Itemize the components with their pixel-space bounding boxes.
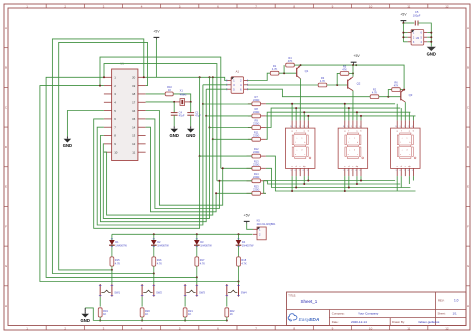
resistor R14 220 [247,172,266,183]
svg-text:SW1: SW1 [114,290,120,294]
svg-text:SW3: SW3 [199,290,205,294]
wire C1 down [190,115,192,126]
wire U3 right pins [427,32,432,43]
wire C4 up [173,102,175,113]
svg-text:4: 4 [412,126,413,128]
resistor R15 4.7K [110,257,120,270]
power +5V (U1) [153,29,160,77]
wire SW4 to R22 [226,297,228,307]
svg-text:Sheet:: Sheet: [438,312,446,316]
svg-text:5: 5 [396,170,397,172]
wire R16 to switch [153,274,155,285]
svg-text:GND: GND [63,143,72,148]
svg-text:C5: C5 [415,10,419,14]
svg-text:H: H [467,304,469,308]
svg-text:+5V: +5V [353,54,360,58]
svg-text:E: E [467,185,469,189]
capacitor C5 [413,10,421,25]
svg-text:220Ω: 220Ω [253,110,259,114]
resistor R22 1K [225,308,235,321]
wire ground rail [93,320,227,322]
junction Q3 base [387,96,389,98]
wire pin7 staircase [97,104,203,225]
svg-text:E: E [5,185,7,189]
wire R9 to top bus [266,108,400,127]
svg-text:D4: D4 [242,240,246,244]
wire R12 to bottom bus [266,156,416,191]
svg-text:G: G [467,264,470,268]
svg-text:e: e [400,154,401,156]
resistor R18 4.7K [237,257,247,282]
svg-text:12: 12 [132,142,136,146]
svg-text:d: d [354,150,355,152]
ground GND (pin5) [63,136,72,148]
wire pin16 staircase [146,111,224,206]
junction Q1 rail [300,64,302,66]
wire R2 to Q3 base [379,96,401,98]
svg-text:B: B [5,66,7,70]
wire U3 left pins [402,23,407,42]
wire rail to GND [85,308,93,321]
wire pin20 loop to SW2 [52,39,153,274]
svg-text:18: 18 [132,92,136,96]
svg-text:Drawn By:: Drawn By: [392,320,405,324]
svg-text:4.7K: 4.7K [115,261,121,265]
wire pin17 crystal line [146,101,175,103]
wire A1 pin4 to R3 [248,84,319,86]
wire A1 pin3 to column [203,84,227,86]
svg-text:A1: A1 [236,70,240,74]
wire pin2 loop over U1 [100,57,221,168]
svg-text:GND: GND [81,318,90,323]
svg-text:Sheet_1: Sheet_1 [301,299,318,304]
resistor R4 [286,56,295,67]
wire R11 to top bus [266,112,411,139]
svg-text:4: 4 [359,126,360,128]
resistor R1 [270,64,279,75]
svg-text:D: D [467,145,470,149]
diode D1 1N4007W [109,234,127,257]
junction diode bus D4 [238,233,240,235]
svg-text:11: 11 [407,326,410,330]
wire C5 right [418,23,431,46]
wire A1 pin5 to column [206,88,227,90]
junction R21 rail [184,320,186,322]
svg-text:16: 16 [132,109,136,113]
svg-text:B: B [467,66,469,70]
junction R18 bottom [238,281,240,283]
svg-text:2: 2 [355,126,356,128]
svg-text:1: 1 [351,126,352,128]
svg-text:G: G [5,264,8,268]
svg-text:47K: 47K [342,67,347,71]
diode D3 1N4007W [194,234,212,257]
svg-text:1N4007W: 1N4007W [200,243,212,247]
svg-text:+5V: +5V [400,13,407,17]
wire pin9 staircase [103,128,209,219]
wires DS3 pins to buses [397,104,413,191]
svg-text:6: 6 [400,170,401,172]
diode D2 1N4007W [151,234,169,257]
svg-text:C: C [467,105,470,109]
junction rail Q2 [352,64,354,66]
svg-text:100μF: 100μF [413,14,421,18]
resistor R6 [392,81,401,92]
svg-text:47pF: 47pF [179,114,185,118]
wire R13 row [221,167,252,169]
resistor R13 220 [247,159,266,170]
junction diode bus D3 [196,233,198,235]
sheet value [453,312,458,316]
wire pin19 loop to SW1 [59,42,148,270]
svg-text:1: 1 [299,126,300,128]
EasyEDA logo [288,314,320,323]
wire Q3 collector to DS3 [404,102,406,120]
wire R4 drop [283,65,285,73]
wire R18 to switch [238,282,240,285]
7-segment display DS1 [285,120,315,176]
junction pin2/loop [99,85,101,87]
svg-text:17: 17 [132,100,136,104]
svg-text:1/1: 1/1 [453,312,458,316]
svg-text:5: 5 [343,170,344,172]
wire R15 to switch [111,270,113,284]
svg-text:1K: 1K [188,312,191,316]
diode D4 1N4007W [236,234,254,257]
svg-text:GND: GND [170,133,179,138]
svg-text:1N4007W: 1N4007W [242,243,254,247]
wire pin20 to +5V and A1 [146,77,228,80]
wire C4 down [173,115,175,126]
svg-text:GND: GND [427,51,436,56]
wire pin10 staircase [104,139,213,215]
svg-text:Date:: Date: [332,320,339,324]
svg-text:11: 11 [132,150,135,154]
svg-text:X1: X1 [180,89,184,93]
drawnby value [419,320,440,324]
svg-text:A: A [467,26,469,30]
wire R23 row [216,192,252,194]
svg-text:b: b [304,142,305,144]
svg-text:19: 19 [132,84,136,88]
resistor R17 4.7K [195,257,205,278]
switch SW4 [226,284,248,297]
junction pin20 [143,76,145,78]
junction C5 left [402,22,404,24]
wire pin1 loop over U1 [104,64,217,181]
svg-text:4MHz: 4MHz [180,92,187,96]
svg-text:1: 1 [404,126,405,128]
date value [351,320,367,324]
svg-text:LM: LM [416,37,419,40]
drawnby label [392,320,405,324]
svg-text:1K: 1K [103,312,106,316]
svg-text:4.7K: 4.7K [272,67,278,71]
wire R12 row [200,155,252,157]
svg-text:10: 10 [290,126,292,128]
IC U1 (20-pin) [104,69,146,161]
svg-text:b: b [409,142,410,144]
wire R7 to top bus [266,103,395,105]
svg-text:H: H [5,304,7,308]
wire R9 row [210,127,252,129]
junction R15 bottom [111,269,113,271]
resistor R11 220 [248,130,266,141]
date label [332,320,339,324]
svg-text:2: 2 [303,126,304,128]
resistor R7 220 [248,95,266,106]
svg-text:1K: 1K [230,312,233,316]
wire column R8 [205,89,207,117]
svg-text:1K: 1K [168,88,171,92]
junction +5V line c [212,76,214,78]
wire Q2 collector to DS2 [352,91,354,121]
resistor R19 1K [98,308,108,321]
svg-text:10: 10 [343,126,345,128]
svg-text:e: e [348,154,349,156]
wire R6 drop [388,90,391,97]
resistor R23 220 [247,184,266,195]
svg-text:Easy: Easy [299,317,310,323]
ground GND (C4) [170,126,179,138]
svg-text:9: 9 [347,126,348,128]
svg-text:1K: 1K [145,312,148,316]
svg-text:4.7K: 4.7K [200,261,206,265]
svg-text:220Ω: 220Ω [253,150,259,154]
wire diode bus [112,233,253,235]
svg-text:2020-12-14: 2020-12-14 [351,320,367,324]
svg-text:REV:: REV: [438,299,445,303]
svg-text:7: 7 [299,170,300,172]
wire R7 row [203,103,252,105]
svg-text:10: 10 [369,4,373,8]
switch SW3 [184,284,206,297]
svg-text:TITLE:: TITLE: [288,294,296,298]
resistor R8 220 [248,107,266,118]
wire SW3 to R21 [184,297,186,307]
wire R4 to rail [294,64,300,66]
junction R16 bottom [153,273,155,275]
wire R17 to switch [196,277,198,284]
svg-text:47pF: 47pF [195,114,201,118]
junction R6 column [403,89,405,91]
svg-text:D2: D2 [157,240,161,244]
svg-text:d: d [406,150,407,152]
power +5V (U3) [400,13,407,23]
IC A1 [227,70,248,94]
svg-text:SW2: SW2 [156,290,162,294]
svg-text:A: A [5,26,7,30]
svg-text:21D-91-02QB01: 21D-91-02QB01 [257,222,276,226]
svg-text:10: 10 [395,126,397,128]
svg-text:10: 10 [369,326,373,330]
wire pin8 staircase [100,116,206,222]
junction +5V line a [199,76,201,78]
svg-text:Your Company: Your Company [358,312,379,316]
svg-text:47K: 47K [394,84,399,88]
resistor R16 4.7K [152,257,162,274]
wires DS2 pins to buses [344,103,362,192]
wire R5 drop [337,73,340,85]
svg-text:20: 20 [132,76,136,80]
wire SW1 to R19 [99,297,101,307]
svg-text:8: 8 [408,170,409,172]
buzzer K5 21D-91-02QB01 [253,219,276,240]
svg-text:220Ω: 220Ω [253,187,259,191]
svg-text:Company:: Company: [332,312,345,316]
junction pin1/loop [103,76,105,78]
resistor R10 [165,85,173,96]
svg-text:F: F [467,224,469,228]
wire pin2 to SW4 [40,86,239,282]
svg-text:8: 8 [303,170,304,172]
junction R17 bottom [196,276,198,278]
svg-text:1N4007W: 1N4007W [115,243,127,247]
svg-text:SW4: SW4 [241,290,247,294]
svg-text:7: 7 [351,170,352,172]
svg-text:Q2: Q2 [357,82,361,86]
svg-text:13: 13 [132,134,136,138]
label U1 [120,61,124,65]
resistor R20 1K [140,308,150,321]
wire pin18 to R10 [146,93,166,95]
svg-text:b: b [357,142,358,144]
svg-text:9: 9 [295,126,296,128]
switch SW2 [141,284,163,297]
wire R11 row [213,138,252,140]
wire R13 to bottom bus [266,168,411,187]
crystal X1 [174,89,191,106]
title Sheet_1 [301,299,318,304]
wire pin15 staircase [146,119,221,209]
junction crystal left [173,101,175,103]
7-segment display DS2 [338,120,368,176]
svg-text:2: 2 [408,126,409,128]
sheet label [438,312,446,316]
svg-text:220Ω: 220Ω [253,175,259,179]
svg-text:4.7K: 4.7K [241,261,247,265]
wire pin1 to SW3 [46,77,197,277]
svg-text:GND: GND [186,133,195,138]
junction R5 column [352,72,354,74]
resistor R9 220 [248,119,266,130]
svg-text:fabien.guillebot: fabien.guillebot [419,320,440,324]
svg-text:6: 6 [295,170,296,172]
ground GND (U3) [427,46,436,56]
wire pin5 to GND [67,111,104,137]
resistor R5 [340,64,349,75]
svg-text:4.7K: 4.7K [320,79,326,83]
svg-text:4.7K: 4.7K [372,91,378,95]
transistor Q3 [401,89,413,102]
svg-text:11: 11 [407,4,410,8]
svg-text:220Ω: 220Ω [253,122,259,126]
wire R14 to bottom bus [266,181,400,184]
company value [358,312,379,316]
wire column R11 [212,77,214,140]
svg-text:1N4007W: 1N4007W [157,243,169,247]
svg-text:15: 15 [132,117,136,121]
transistor Q2 [348,77,361,91]
svg-text:7: 7 [404,170,405,172]
wire C5 left [403,22,414,24]
wire pin14 staircase [146,127,218,212]
wire R23 to bottom bus [264,181,395,194]
svg-text:4: 4 [307,126,308,128]
svg-text:+5V: +5V [244,213,251,217]
7-segment display DS3 [391,120,421,176]
wire R10 to crystal node [173,94,190,102]
svg-text:1.0: 1.0 [454,299,459,303]
wire R8 to top bus [266,115,416,117]
junction crystal right [190,101,192,103]
resistor R21 1K [183,308,193,321]
wire rail to Q2 emitter [352,65,354,77]
svg-text:c: c [304,154,305,156]
svg-text:3: 3 [412,170,413,172]
svg-text:+5V: +5V [153,29,160,33]
svg-text:Q1: Q1 [305,69,309,73]
junction Q1 base [283,72,285,74]
svg-text:c: c [357,154,358,156]
resistor R2 [370,88,379,99]
svg-text:9: 9 [400,126,401,128]
junction R20 rail [141,320,143,322]
ground GND (rail) [81,308,90,323]
title block frame [287,292,467,326]
svg-text:220Ω: 220Ω [253,162,259,166]
svg-text:10: 10 [114,150,118,154]
wire R1 to Q1 base [279,72,297,74]
junction Q2 base [336,84,338,86]
svg-text:4.7K: 4.7K [157,261,163,265]
svg-text:Q3: Q3 [409,93,413,97]
svg-text:220Ω: 220Ω [253,133,259,137]
svg-text:12: 12 [445,4,449,8]
resistor R12 220 [247,147,266,158]
capacitor C1 [187,110,201,117]
svg-text:c: c [409,154,410,156]
wire R6 to rail column [400,89,404,91]
switch SW1 [99,284,121,297]
svg-text:47K: 47K [288,59,293,63]
ground GND (C1) [186,126,195,138]
svg-text:6: 6 [347,170,348,172]
wire R14 row [217,180,252,182]
svg-text:D3: D3 [200,240,204,244]
resistor R3 [318,76,327,87]
title label [288,294,296,298]
svg-text:220Ω: 220Ω [253,98,259,102]
wire +5V rail [301,65,405,89]
svg-text:14: 14 [132,125,136,129]
svg-text:F: F [5,224,7,228]
junction R22 rail [226,320,228,322]
junction diode bus D2 [153,233,155,235]
wire R5 to rail column [349,72,353,74]
power +5V (rail) [351,54,361,66]
svg-text:D: D [5,145,8,149]
wire A1 pin2 to R1 [248,73,270,80]
transistor Q1 [297,65,309,79]
wire A1 pin6 to R2 [248,89,371,97]
wire Q1 collector to DS1 [299,79,301,121]
wire R3 to Q2 base [327,84,348,86]
power +5V (K5) [244,213,253,229]
junction R19 rail [99,320,101,322]
wire pin6 staircase [94,119,200,228]
svg-text:3: 3 [359,170,360,172]
